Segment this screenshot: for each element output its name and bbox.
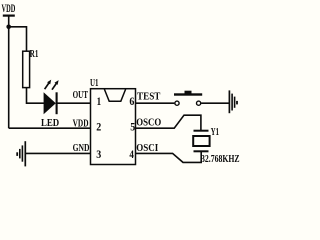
junction dot xyxy=(6,25,11,30)
op IC U1 body xyxy=(91,89,136,165)
svg-text:GND: GND xyxy=(73,143,90,154)
power symbol VDD xyxy=(3,15,15,17)
crystal Y1 xyxy=(193,131,209,152)
svg-text:TEST: TEST xyxy=(137,92,160,103)
svg-text:VDD: VDD xyxy=(2,3,16,15)
svg-text:5: 5 xyxy=(130,120,135,134)
svg-text:1: 1 xyxy=(97,94,102,108)
wire pin 6 to switch xyxy=(136,102,175,104)
svg-text:OSCI: OSCI xyxy=(136,143,158,154)
svg-text:OSCO: OSCO xyxy=(136,117,161,128)
wire ground to pin 3 xyxy=(25,152,90,154)
wire branch down to R1 xyxy=(26,26,28,51)
LED diode xyxy=(44,80,59,115)
resistor R1 xyxy=(23,49,39,88)
wire R1 to LED anode xyxy=(27,88,45,104)
svg-text:6: 6 xyxy=(129,94,134,108)
svg-text:3: 3 xyxy=(96,147,101,161)
wire switch to ground xyxy=(201,102,229,104)
switch push button xyxy=(174,91,202,106)
svg-text:U1: U1 xyxy=(90,78,99,89)
svg-text:VDD: VDD xyxy=(73,118,89,129)
wire VDD rail vertical xyxy=(8,16,10,129)
ground symbol right xyxy=(229,90,237,113)
wire pin 4 to crystal bottom xyxy=(136,151,202,162)
wire LED cathode to pin 1 xyxy=(57,102,91,104)
wire VDD rail to pin 2 xyxy=(9,127,91,129)
ground symbol left xyxy=(17,141,25,166)
wire pin 5 to crystal top xyxy=(136,115,201,130)
svg-text:Y1: Y1 xyxy=(211,127,219,138)
svg-text:4: 4 xyxy=(129,147,134,161)
wire junction to R1 branch horizontal xyxy=(9,26,27,28)
svg-text:2: 2 xyxy=(96,120,101,134)
svg-text:R1: R1 xyxy=(30,49,39,60)
svg-text:OUT: OUT xyxy=(73,90,88,101)
svg-text:32.768KHZ: 32.768KHZ xyxy=(201,154,240,165)
